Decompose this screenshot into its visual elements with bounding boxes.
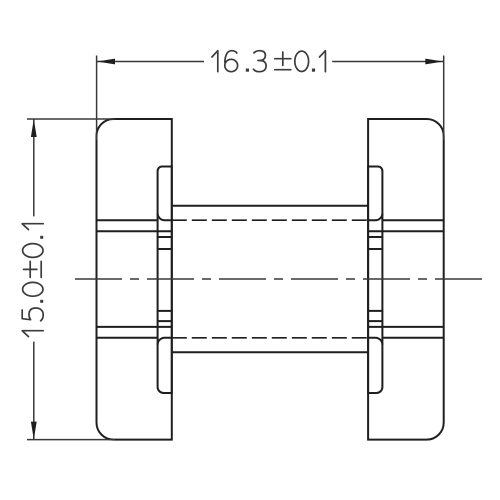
top dimension arrow right bbox=[425, 59, 443, 65]
hidden bore top dashed line bbox=[172, 219, 368, 221]
left rib outline bbox=[158, 167, 172, 394]
tube bottom line bbox=[172, 351, 368, 353]
right bore lead-in arc bottom bbox=[368, 338, 382, 345]
left rib cross line 3 bbox=[158, 310, 172, 312]
right flange slot line B bottom bbox=[368, 326, 444, 328]
hidden bore bottom dashed line bbox=[172, 337, 368, 339]
left dimension arrow up bbox=[31, 119, 37, 137]
top dimension line right segment bbox=[332, 61, 444, 63]
left dimension line upper segment bbox=[33, 119, 35, 216]
left flange outline bbox=[97, 119, 172, 440]
left bore lead-in arc top bbox=[158, 213, 172, 220]
right rib cross line 1 bbox=[368, 236, 382, 238]
left flange slot line A top bbox=[97, 219, 158, 221]
right flange slot line A bottom bbox=[382, 337, 443, 339]
right flange outline bbox=[368, 119, 444, 440]
top dimension line left segment bbox=[97, 61, 204, 63]
top dimension extension line right bbox=[443, 56, 445, 141]
top dimension arrow left bbox=[97, 59, 115, 65]
center line bbox=[75, 278, 482, 280]
right bore lead-in arc top bbox=[368, 213, 382, 220]
dimension text 16.3±0.1 bbox=[212, 51, 326, 72]
left rib cross line 4 bbox=[158, 320, 172, 322]
left flange slot line A bottom bbox=[97, 337, 158, 339]
left dimension extension line top bbox=[27, 118, 115, 120]
right rib cross line 2 bbox=[368, 248, 382, 250]
left rib cross line 1 bbox=[158, 236, 172, 238]
right rib outline bbox=[368, 167, 382, 394]
left flange slot line B top bbox=[97, 230, 172, 232]
tube top line bbox=[172, 205, 368, 207]
right flange slot line A top bbox=[382, 219, 443, 221]
left dimension line lower segment bbox=[33, 342, 35, 440]
right rib cross line 3 bbox=[368, 310, 382, 312]
left bore lead-in arc bottom bbox=[158, 338, 172, 345]
right flange slot line B top bbox=[368, 230, 444, 232]
top dimension extension line left bbox=[96, 56, 98, 141]
dimension text 15.0±0.1 bbox=[22, 224, 43, 337]
left dimension extension line bottom bbox=[27, 439, 115, 441]
left rib cross line 2 bbox=[158, 248, 172, 250]
left dimension arrow down bbox=[31, 422, 37, 440]
right rib cross line 4 bbox=[368, 320, 382, 322]
left flange slot line B bottom bbox=[97, 326, 172, 328]
